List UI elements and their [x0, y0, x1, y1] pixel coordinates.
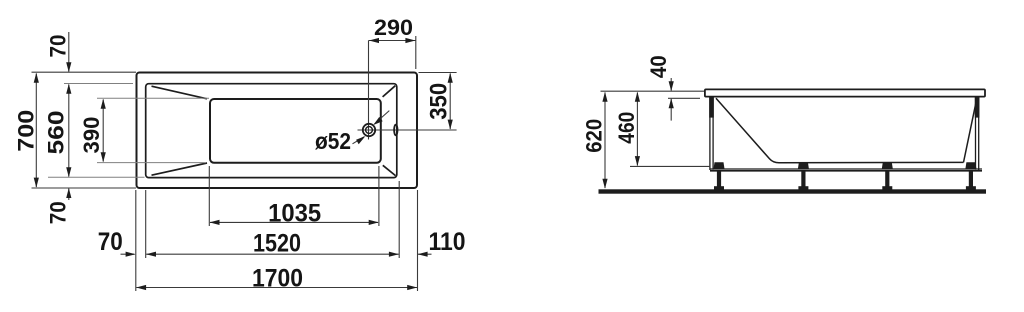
- drain inner circle: [366, 127, 373, 134]
- svg-text:70: 70: [46, 35, 71, 58]
- drain outer circle: [363, 124, 375, 136]
- leg stem 2: [801, 171, 805, 187]
- dim 290 line: [369, 38, 416, 43]
- leg stem 4: [969, 171, 973, 187]
- tub bottom upper line: [710, 168, 982, 170]
- dim 1520 line: [146, 252, 399, 257]
- svg-text:70: 70: [46, 201, 71, 224]
- dim 390 line: [101, 99, 106, 163]
- dim 40 label: [646, 55, 671, 78]
- side dim top extension line: [601, 90, 705, 92]
- dim 290 extension right: [415, 36, 417, 69]
- leg mount 2: [798, 162, 809, 169]
- dim 700 label: [14, 110, 39, 152]
- basin rectangle: [210, 99, 381, 163]
- ext line tub right down: [417, 190, 419, 291]
- dim 460 line: [635, 92, 640, 166]
- dim 70 bottom-left label: [46, 201, 71, 224]
- leg mount 4: [965, 162, 976, 169]
- svg-text:110: 110: [429, 228, 466, 256]
- interior right slope: [964, 100, 977, 163]
- dim 390 extension top (gray): [97, 97, 209, 99]
- dim 460 label: [614, 112, 639, 144]
- slope diagonal bottom-right: [383, 165, 396, 175]
- svg-text:1035: 1035: [268, 199, 321, 227]
- dim 560 line: [66, 84, 71, 178]
- interior left slope: [716, 98, 779, 163]
- drain label leader upper-right with arrow: [373, 111, 389, 125]
- svg-text:40: 40: [646, 55, 671, 78]
- left apron wall outer line: [709, 97, 711, 170]
- dim 350 label: [426, 83, 453, 120]
- drain label leader lower-left with arrow: [353, 136, 366, 144]
- svg-text:560: 560: [44, 111, 69, 155]
- svg-text:350: 350: [426, 83, 453, 120]
- side dim rim underside extension line: [668, 97, 700, 99]
- slope diagonal top-left: [152, 86, 208, 99]
- dim 40 upper leader: [669, 78, 674, 91]
- rim bar: [705, 89, 985, 96]
- left apron wall inner line: [712, 97, 714, 170]
- right apron wall inner line: [975, 97, 977, 170]
- dim 620 line: [602, 92, 607, 189]
- slope diagonal bottom-left: [152, 163, 208, 175]
- leg foot 1: [714, 186, 724, 189]
- dim 560 extension top (gray): [64, 83, 133, 85]
- drain centerline horizontal: [358, 129, 457, 131]
- leg stem 1: [717, 171, 721, 187]
- dim 1035 line: [210, 220, 379, 225]
- interior bottom line: [779, 161, 964, 163]
- ext line tub left down: [135, 190, 137, 291]
- dim 350 extension top: [419, 72, 457, 74]
- ext line rim right down: [398, 181, 400, 258]
- slope diagonal top-right: [383, 86, 396, 97]
- svg-text:700: 700: [14, 110, 39, 152]
- svg-text:1520: 1520: [253, 229, 301, 257]
- dim 390 label: [79, 117, 104, 154]
- dim 1700 line: [136, 285, 417, 290]
- dim 350 line: [448, 73, 453, 130]
- dim 700 line: [34, 73, 39, 188]
- left wall thick upper segment: [709, 97, 714, 118]
- leg foot 2: [798, 186, 808, 189]
- dim 70 top-left leader upper: [66, 32, 71, 72]
- floor bar: [599, 189, 987, 193]
- ext line basin left down: [208, 166, 210, 226]
- dim 70 bottom arrow: [121, 252, 136, 257]
- dim 700 extension bottom: [32, 187, 137, 189]
- tub inner rim rectangle: [146, 84, 397, 178]
- dim 700 extension top: [32, 71, 137, 73]
- svg-text:290: 290: [374, 15, 413, 40]
- svg-text:390: 390: [79, 117, 104, 154]
- leg foot 3: [882, 186, 892, 189]
- dim 70 bottom-left leader lower: [66, 188, 71, 200]
- right apron wall outer line: [978, 97, 980, 170]
- dim 110 arrow: [418, 252, 432, 257]
- svg-text:620: 620: [582, 119, 607, 153]
- right wall thick upper segment: [975, 97, 980, 118]
- dim 620 label: [582, 119, 607, 153]
- svg-text:70: 70: [98, 228, 123, 256]
- dim 560 extension bottom (gray): [48, 176, 145, 178]
- tub outer rim rectangle: [137, 73, 418, 189]
- svg-text:ø52: ø52: [315, 128, 351, 154]
- dim 40 lower leader: [669, 98, 674, 120]
- tub bottom lower line: [710, 170, 982, 172]
- drain centerline vertical: [368, 41, 370, 140]
- dim 390 extension bottom (gray): [97, 162, 206, 164]
- side dim 460 bottom extension line: [630, 165, 710, 167]
- leg mount 3: [882, 162, 893, 169]
- dim 70 top-left label: [46, 35, 71, 58]
- ext line rim left down: [145, 190, 147, 258]
- svg-text:1700: 1700: [252, 265, 303, 293]
- ext line basin right down: [378, 166, 380, 226]
- svg-text:460: 460: [614, 112, 639, 144]
- leg mount 1: [714, 162, 725, 169]
- leg stem 3: [885, 171, 889, 187]
- leg foot 4: [966, 186, 976, 189]
- dim 560 label: [44, 111, 69, 155]
- overflow mark on right rim: [394, 125, 397, 136]
